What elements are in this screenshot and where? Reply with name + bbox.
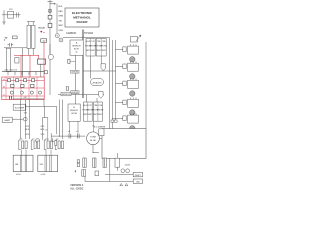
capacitor C15: [103, 158, 106, 167]
wire: [40, 64, 42, 77]
wire: [49, 0, 51, 57]
svg-text:12V: 12V: [9, 9, 13, 11]
resistor R12: [21, 84, 24, 87]
rheostat R17: [115, 153, 120, 171]
inline label GROM: [71, 70, 79, 73]
wire: [96, 98, 98, 102]
wire: [111, 40, 113, 129]
wire red net: [20, 55, 22, 77]
node +B: [48, 2, 56, 5]
resistor R7: [8, 79, 11, 82]
wire: [86, 95, 88, 102]
pump P1: [48, 54, 53, 59]
svg-text:SLOWER: SLOWER: [15, 108, 25, 110]
solenoid L2: [130, 74, 135, 79]
wire: [83, 70, 116, 72]
resistor R14: [44, 71, 47, 74]
wire: [51, 135, 85, 137]
wire: [26, 100, 57, 107]
diode D3: [98, 92, 103, 99]
svg-text:GROM: GROM: [72, 92, 79, 94]
indicator box SHIFT: [133, 172, 142, 176]
wire red net: [14, 54, 39, 56]
svg-text:GM: GM: [24, 97, 27, 99]
svg-text:Needle: Needle: [39, 27, 46, 29]
solenoid L3: [130, 91, 135, 96]
svg-text:a1 b2: a1 b2: [16, 174, 21, 176]
capacitor C11: [77, 134, 79, 139]
control module U3: [68, 104, 80, 121]
svg-text:xxLED: xxLED: [125, 165, 131, 167]
svg-text:a b: a b: [45, 130, 48, 132]
connector block P3: [31, 140, 39, 150]
injector driver Q3: [115, 44, 138, 54]
svg-text:GROM: GROM: [72, 72, 79, 74]
wire: [108, 38, 110, 129]
injector driver Q4: [115, 61, 138, 71]
wire: [105, 174, 133, 176]
driver board outline (red): [2, 77, 44, 100]
svg-text:BLYE: BLYE: [74, 49, 80, 51]
svg-text:SHIFT: SHIFT: [135, 175, 142, 177]
svg-text:GM: GM: [40, 164, 44, 166]
node lamp: [23, 117, 27, 121]
resistor R8: [16, 79, 19, 82]
resistor R13: [31, 84, 34, 87]
svg-text:ax: ax: [43, 32, 45, 34]
relay coil K3: [38, 59, 46, 64]
connector block P4: [44, 140, 52, 150]
pin marks: [10, 96, 12, 99]
wire: [4, 47, 27, 49]
svg-text:SENSOR: SENSOR: [72, 46, 81, 48]
capacitor C12: [75, 160, 80, 173]
wire: [2, 14, 21, 16]
resistor R16: [55, 140, 57, 145]
wire: [56, 4, 58, 34]
wire: [50, 133, 52, 141]
capacitor C14: [93, 158, 99, 176]
inline label GROM2: [71, 91, 79, 94]
solenoid L5: [130, 126, 135, 131]
terminal block TB4: [93, 102, 102, 121]
svg-text:ORG: ORG: [58, 30, 63, 32]
wire: [24, 100, 26, 140]
terminal pins: [8, 72, 36, 76]
wire: [29, 100, 31, 140]
transistor Q11: [38, 91, 41, 94]
pump motor M1: [87, 132, 100, 145]
switch S1: [48, 15, 52, 19]
wire: [3, 10, 5, 24]
solenoid L1: [130, 57, 135, 62]
wire red net: [2, 80, 44, 82]
wire: [62, 100, 64, 139]
capacitor C13: [82, 158, 86, 176]
connector block P5: [55, 140, 63, 150]
capacitor C10: [69, 134, 71, 139]
svg-text:LAMP: LAMP: [4, 119, 10, 122]
diode D2: [101, 64, 106, 71]
wire: [92, 145, 94, 153]
wire: [90, 56, 92, 79]
svg-text:PHONE: PHONE: [97, 110, 104, 112]
sensor box U2: [70, 40, 83, 55]
transistor Q8: [10, 91, 13, 94]
svg-text:RACER: RACER: [76, 20, 88, 24]
wire: [22, 48, 24, 77]
transformer T2: [38, 155, 58, 176]
wire: [56, 106, 58, 134]
svg-text:GM: GM: [15, 164, 19, 166]
wire: [27, 22, 35, 26]
svg-text:c6: c6: [3, 94, 5, 96]
junction box J5: [99, 129, 104, 136]
svg-text:A RACER: A RACER: [92, 81, 102, 84]
svg-text:a1 b2 c3 d4 e5 f6: a1 b2 c3 d4 e5 f6: [4, 70, 17, 72]
heater element E1: [27, 25, 31, 48]
resistor R5: [68, 59, 70, 63]
svg-text:BLK: BLK: [58, 6, 63, 8]
svg-text:TUBE: TUBE: [90, 137, 96, 139]
wire: [92, 121, 94, 132]
svg-text:LED: LED: [136, 181, 140, 183]
terminal block TB3: [84, 102, 93, 121]
lamp box: [2, 117, 12, 122]
wire red net: [37, 55, 39, 59]
wire red net: [2, 95, 44, 97]
svg-text:CARBON: CARBON: [66, 32, 77, 35]
svg-text:b4: b4: [3, 86, 5, 88]
label +5VDC: [41, 39, 47, 42]
indicator box LED: [133, 179, 142, 183]
wire: [114, 40, 116, 120]
resistor R10: [32, 79, 35, 82]
svg-text:ALL-12VDC: ALL-12VDC: [70, 187, 83, 190]
node GND: [4, 38, 7, 41]
svg-text:SENSOR: SENSOR: [62, 94, 71, 96]
svg-text:METHANOL: METHANOL: [73, 16, 91, 20]
lamp DS2: [126, 169, 130, 173]
wire: [110, 181, 133, 183]
resistor R15: [52, 138, 54, 141]
svg-text:4x: 4x: [75, 52, 77, 54]
wire red net: [2, 87, 44, 89]
relay K2: [15, 58, 19, 63]
label pill A RACER: [91, 79, 104, 86]
lamp DS1: [121, 169, 125, 173]
transformer T1: [13, 155, 33, 176]
label SENSOR tag: [61, 92, 71, 96]
svg-text:TIP1000: TIP1000: [84, 32, 94, 35]
tank box: [102, 129, 146, 159]
capacitor C0: [17, 12, 19, 17]
wire red net: [6, 77, 37, 100]
injector driver Q7: [112, 113, 138, 123]
svg-text:a2: a2: [3, 79, 5, 81]
wire: [19, 100, 21, 139]
bus divider: [82, 30, 84, 99]
wire: [2, 71, 46, 73]
wire: [12, 118, 23, 120]
svg-text:WHT: WHT: [58, 25, 63, 27]
transistor Q9: [20, 91, 23, 94]
svg-text:RED: RED: [58, 11, 63, 13]
node D: [120, 183, 128, 185]
wire: [69, 121, 71, 134]
transistor Q10: [30, 91, 33, 94]
connector block P2: [19, 140, 27, 150]
connector G1: [55, 34, 59, 38]
wire: [109, 158, 111, 181]
wire: [85, 176, 110, 181]
resistor R6: [66, 87, 68, 90]
wire: [59, 100, 61, 137]
potentiometer arrow: [131, 37, 138, 43]
wire: [63, 37, 110, 39]
injector driver Q6: [115, 98, 138, 108]
wire: [58, 94, 104, 96]
capacitor C1: [8, 43, 14, 47]
switch S2: [13, 36, 18, 39]
node R: [40, 31, 42, 33]
node C: [36, 139, 40, 143]
wire: [42, 106, 47, 140]
injector driver Q5: [115, 79, 138, 89]
battery BT1: [8, 12, 14, 19]
terminal block TB2: [96, 39, 106, 57]
svg-text:BLUE: BLUE: [90, 140, 96, 142]
svg-text:PHONE: PHONE: [101, 46, 108, 48]
svg-text:4.0 4xWIRE: 4.0 4xWIRE: [94, 126, 106, 128]
wire: [29, 48, 33, 55]
resistor R11: [11, 84, 14, 87]
svg-text:SENSOR: SENSOR: [70, 110, 79, 112]
svg-text:a1 b2: a1 b2: [41, 174, 46, 176]
fuse F1: [48, 9, 52, 13]
ground: [2, 22, 6, 24]
svg-text:VERSION A: VERSION A: [70, 184, 83, 187]
wire red net: [43, 42, 45, 77]
wire: [49, 44, 51, 95]
blower box: [13, 104, 26, 110]
wire: [77, 121, 79, 134]
wire: [75, 55, 77, 104]
title block: [65, 8, 99, 27]
wire: [145, 42, 147, 129]
svg-text:ELECTRONIC: ELECTRONIC: [72, 11, 93, 15]
terminal pin: [111, 120, 114, 122]
wire: [13, 98, 44, 100]
wire red net: [29, 55, 31, 77]
resistor R9: [24, 79, 27, 82]
heater element E2: [31, 25, 35, 48]
wire: [22, 150, 52, 156]
wire: [47, 118, 49, 142]
svg-text:GRN: GRN: [58, 16, 63, 18]
wire: [100, 56, 102, 64]
terminal pin: [114, 120, 117, 122]
solenoid L4: [130, 110, 135, 115]
resistor R2: [6, 48, 10, 71]
terminal block TB1: [86, 39, 95, 57]
svg-text:GROM: GROM: [71, 113, 77, 115]
relay K1: [48, 23, 52, 27]
connector G2: [59, 38, 63, 42]
